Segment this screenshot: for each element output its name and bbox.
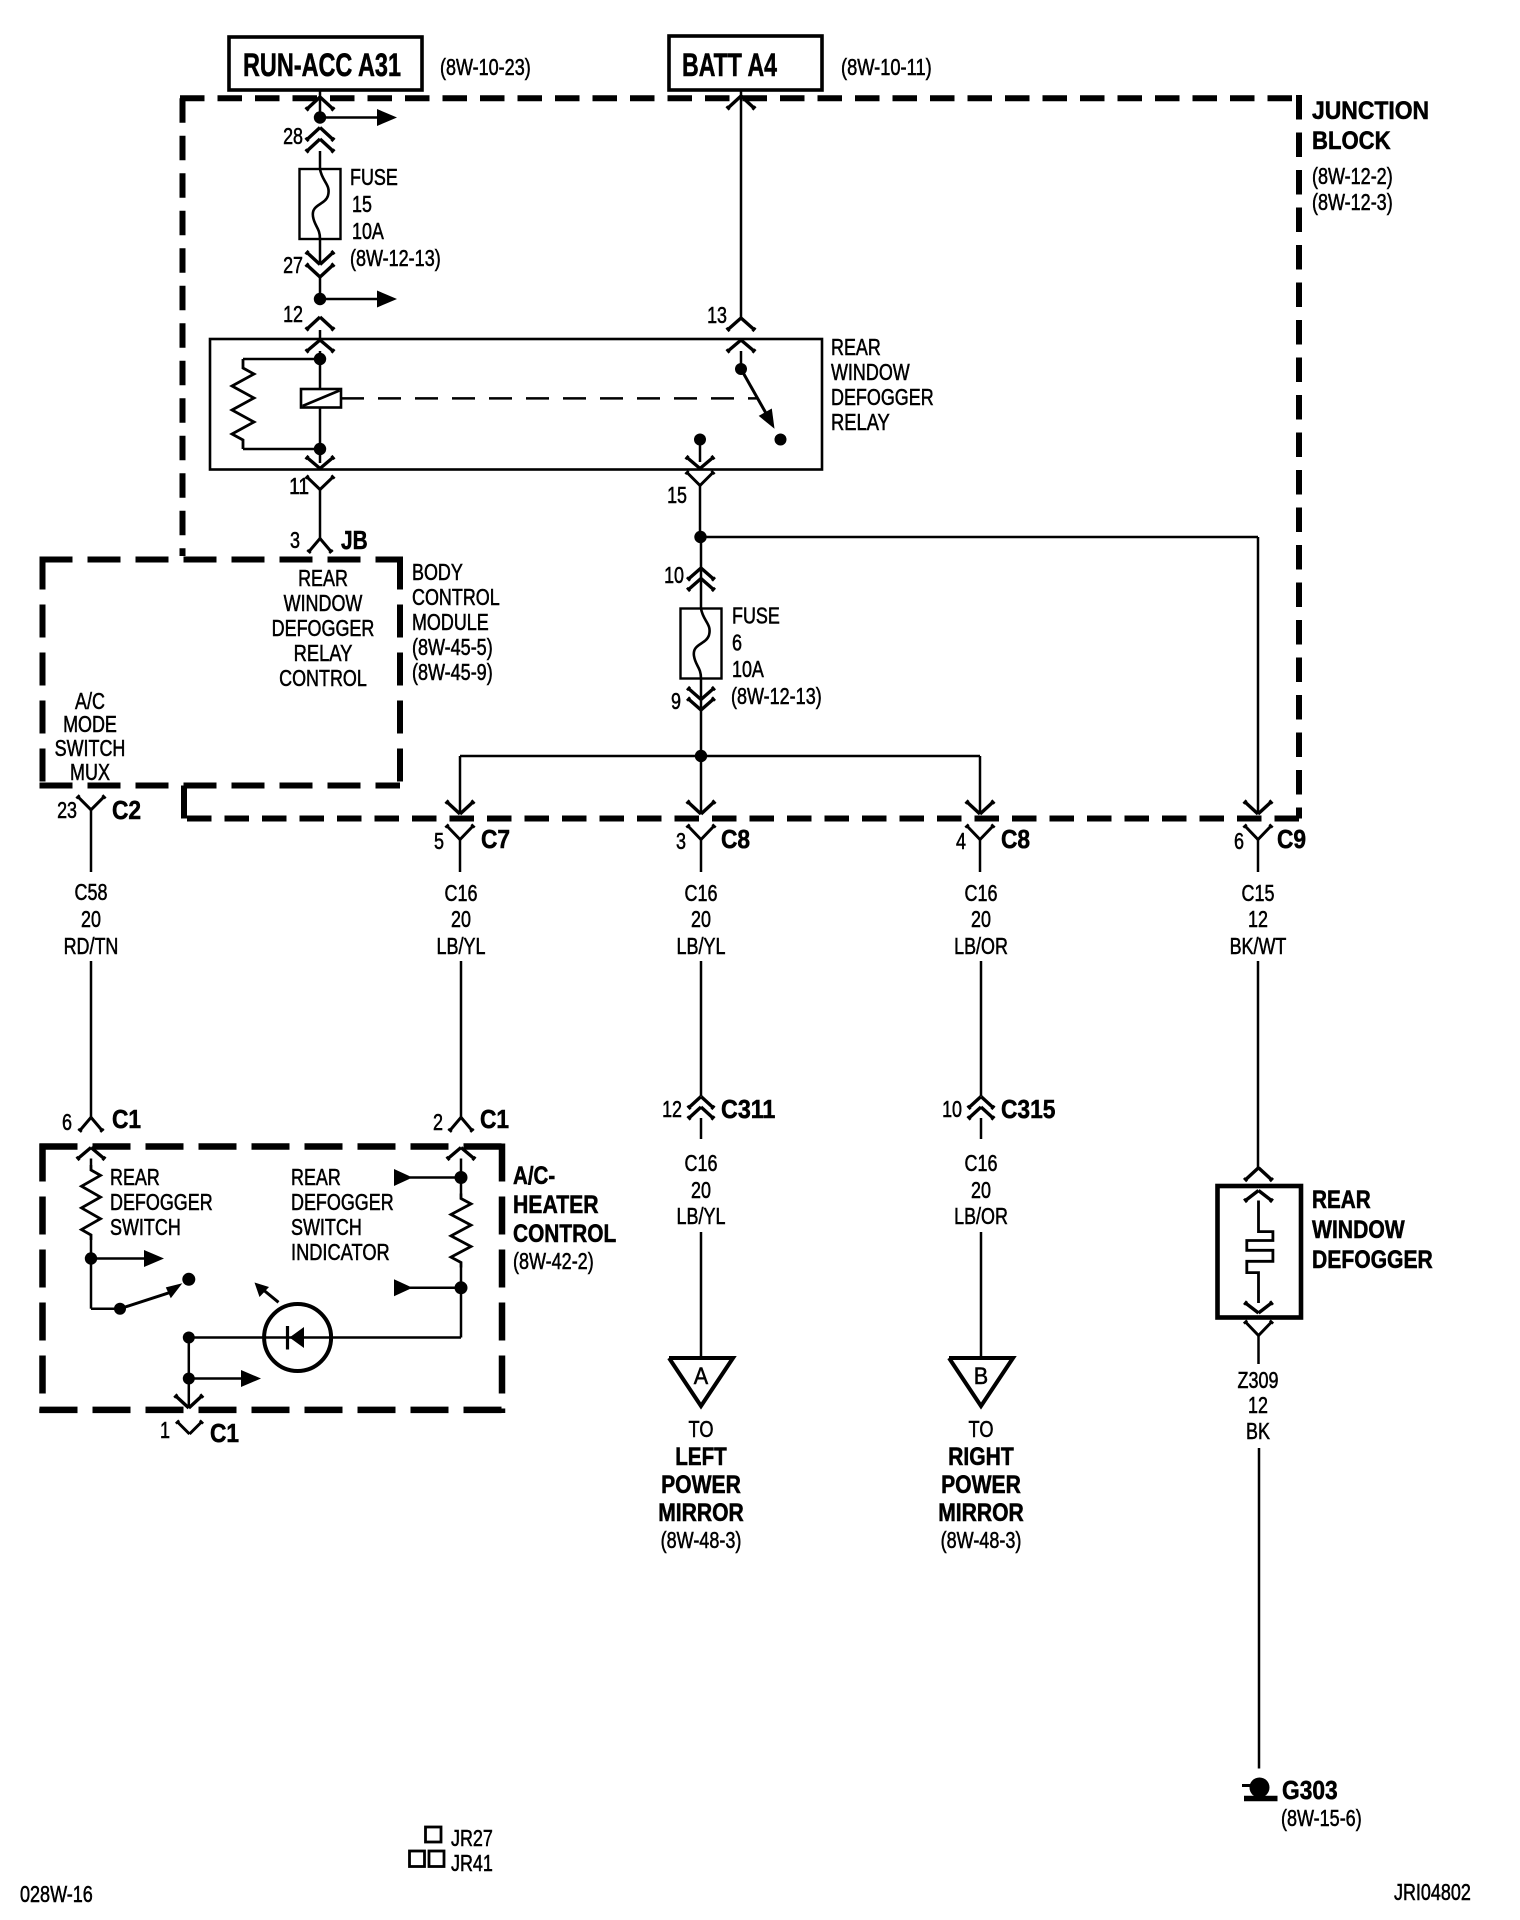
node junction dot pin 28 <box>314 111 326 123</box>
relay output chevron <box>686 456 715 469</box>
fuse 15 10A <box>300 169 341 239</box>
wire C7 drop vertical <box>459 756 462 812</box>
node pin1 junction <box>183 1373 195 1385</box>
pin label 11 <box>289 473 309 499</box>
svg-text:LB/OR: LB/OR <box>954 933 1008 959</box>
pin label 10 <box>664 562 684 588</box>
pin label 27 <box>283 252 303 278</box>
wire BATT A4 to junction block <box>740 90 743 318</box>
wire pin 15 down to junction <box>699 486 702 538</box>
wire splice to C8-4 drop <box>701 755 980 758</box>
wire label C16 20 LB/YL first <box>437 880 486 959</box>
defogger grid output chevron <box>1244 1301 1273 1313</box>
svg-text:C7: C7 <box>481 824 510 854</box>
LED emission arrow <box>255 1283 279 1303</box>
svg-text:RD/TN: RD/TN <box>64 933 119 959</box>
wire C311 to label <box>700 1118 703 1139</box>
wire relay output contact down <box>699 440 702 463</box>
connector double chevron pin 10 <box>687 568 715 591</box>
power feed box BATT A4 <box>669 36 822 90</box>
svg-text:WINDOW: WINDOW <box>284 590 363 616</box>
connector vee C1 pin 1 <box>176 1420 203 1434</box>
svg-text:9: 9 <box>671 688 681 714</box>
designator C311 <box>721 1094 775 1124</box>
svg-text:12: 12 <box>1248 906 1268 932</box>
ground G303 symbol <box>1242 1778 1278 1799</box>
wire LED junction down <box>188 1338 191 1379</box>
svg-text:LB/YL: LB/YL <box>677 1203 726 1229</box>
svg-text:RELAY: RELAY <box>831 409 890 435</box>
wire defogger to ground <box>1258 1448 1261 1769</box>
wire relay coil bottom <box>319 408 322 464</box>
connector Y C8 pin 3 <box>686 824 715 872</box>
junction block dashed border bottom <box>184 816 1299 822</box>
wire splice to C7 drop <box>460 755 701 758</box>
switch input chevron <box>77 1148 106 1161</box>
svg-text:REAR: REAR <box>298 565 348 591</box>
svg-text:(8W-12-13): (8W-12-13) <box>350 245 441 271</box>
wire pin 12 to relay <box>319 330 322 339</box>
relay coil symbol <box>301 389 341 408</box>
node LED junction <box>183 1332 195 1344</box>
svg-text:SWITCH: SWITCH <box>55 735 126 761</box>
pin label 13 <box>707 302 727 328</box>
connector Y C9 pin 6 <box>1243 824 1272 872</box>
svg-text:6: 6 <box>1234 828 1244 854</box>
svg-text:3: 3 <box>676 828 686 854</box>
svg-text:BLOCK: BLOCK <box>1312 127 1391 155</box>
svg-text:4: 4 <box>956 828 966 854</box>
arrow mux signal indicator bottom <box>394 1279 461 1296</box>
svg-text:MIRROR: MIRROR <box>938 1499 1024 1527</box>
svg-text:C8: C8 <box>721 824 750 854</box>
svg-text:LEFT: LEFT <box>675 1443 727 1471</box>
arrow chevron into C7 <box>445 800 474 814</box>
wire C8-4 drop vertical <box>979 756 982 812</box>
body control module dashed box top <box>40 557 401 563</box>
wire fuse 15 to pin 27 <box>319 239 322 264</box>
fuse 6 10A <box>681 609 722 679</box>
wire to right mirror triangle <box>980 1232 983 1358</box>
svg-text:20: 20 <box>971 906 991 932</box>
svg-text:13: 13 <box>707 302 727 328</box>
svg-text:C1: C1 <box>112 1104 141 1134</box>
svg-text:1: 1 <box>160 1417 170 1443</box>
wire indicator resistor top <box>460 1178 463 1194</box>
svg-text:27: 27 <box>283 252 303 278</box>
wire pin 27 to pin 12 <box>319 277 322 299</box>
svg-text:LB/YL: LB/YL <box>677 933 726 959</box>
pin label 3 <box>290 527 300 553</box>
designator C2 <box>112 795 141 825</box>
svg-text:C311: C311 <box>721 1094 775 1124</box>
splice symbol JR41 <box>410 1851 445 1867</box>
arrow chevron into C9 <box>1243 800 1272 814</box>
designator C8 pin4 <box>1001 824 1030 854</box>
connector chevron pin 13 <box>726 318 755 331</box>
svg-text:C1: C1 <box>480 1104 509 1134</box>
designator G303 <box>1282 1775 1338 1805</box>
wire label C16 20 LB/OR first <box>954 880 1008 959</box>
off-page connector triangle A <box>669 1358 733 1406</box>
node junction dot pin 12 <box>314 293 326 305</box>
defogger grid input chevron <box>1244 1191 1273 1203</box>
wire label C16 20 LB/YL third <box>677 1150 726 1229</box>
connector double chevron pin 27 <box>305 251 334 277</box>
designator C1 bottom <box>210 1418 239 1448</box>
wire RUN-ACC A31 to junction block <box>319 90 322 118</box>
node relay output contact <box>694 434 706 446</box>
svg-text:JRI04802: JRI04802 <box>1394 1879 1471 1905</box>
power feed box RUN-ACC A31 <box>229 37 422 90</box>
node relay common contact <box>735 363 747 375</box>
svg-text:DEFOGGER: DEFOGGER <box>110 1189 213 1215</box>
switch blade with arrow <box>120 1283 182 1309</box>
designator C1 left <box>112 1104 141 1134</box>
junction block dashed border left <box>180 98 186 556</box>
fuse 6 label <box>731 603 822 710</box>
resistor relay coil suppression <box>232 359 254 449</box>
svg-text:JB: JB <box>341 525 368 555</box>
wire C2 to C1 pin 6 <box>90 961 93 1117</box>
svg-text:23: 23 <box>57 797 77 823</box>
pin label 2 C1 <box>433 1109 443 1135</box>
svg-text:20: 20 <box>971 1177 991 1203</box>
node splice below fuse 6 <box>695 750 707 762</box>
node relay NO contact <box>775 434 787 446</box>
connector chevron defogger input <box>1244 1168 1273 1182</box>
wire to left mirror triangle <box>700 1232 703 1358</box>
svg-text:CONTROL: CONTROL <box>279 665 367 691</box>
relay control dashed line <box>341 397 757 400</box>
svg-text:JR41: JR41 <box>451 1850 493 1876</box>
reference (8W-15-6) <box>1281 1805 1362 1831</box>
pin label 10 C315 <box>942 1096 962 1122</box>
pin label 1 C1 <box>160 1417 170 1443</box>
LED diode symbol <box>288 1326 305 1350</box>
svg-text:20: 20 <box>81 906 101 932</box>
relay coil input chevron <box>306 340 335 353</box>
connector Y C8 pin 4 <box>965 824 994 872</box>
wire relay switch common <box>740 351 743 369</box>
connector Y pin 15 <box>685 471 714 486</box>
svg-text:15: 15 <box>667 482 687 508</box>
connector double chevron pin 28 <box>305 128 334 153</box>
rear window defogger relay box <box>210 339 822 470</box>
relay switch blade <box>741 369 775 429</box>
svg-text:20: 20 <box>451 906 471 932</box>
svg-text:15: 15 <box>352 191 372 217</box>
wire coil top to resistor <box>243 358 320 361</box>
svg-text:(8W-48-3): (8W-48-3) <box>661 1527 742 1553</box>
pin label 4 C8 <box>956 828 966 854</box>
drawing number JRI04802 <box>1394 1879 1471 1905</box>
wire label C15 12 BK/WT <box>1230 880 1287 959</box>
svg-text:(8W-42-2): (8W-42-2) <box>513 1248 594 1274</box>
node indicator top junction <box>455 1171 468 1184</box>
svg-text:(8W-10-23): (8W-10-23) <box>440 54 531 80</box>
connector inverted-Y JB pin 3 <box>307 539 333 553</box>
wire splice to pivot <box>91 1259 120 1309</box>
svg-text:DEFOGGER: DEFOGGER <box>831 384 934 410</box>
pin label 5 C7 <box>434 828 444 854</box>
to left power mirror label <box>658 1416 744 1553</box>
wire label C16 20 LB/OR second <box>954 1150 1008 1229</box>
label JR27 <box>451 1825 493 1851</box>
svg-text:WINDOW: WINDOW <box>831 359 910 385</box>
relay coil output chevron <box>306 456 335 469</box>
arrow branch right at pin 28 <box>320 109 397 126</box>
svg-text:C315: C315 <box>1001 1094 1055 1124</box>
AC heater control dashed box right <box>499 1144 506 1414</box>
wire C8-4 to C315 <box>980 961 983 1096</box>
designator C1 right <box>480 1104 509 1134</box>
junction block dashed border right <box>1296 95 1302 819</box>
svg-text:BK/WT: BK/WT <box>1230 933 1287 959</box>
svg-text:2: 2 <box>433 1109 443 1135</box>
wire LED left <box>189 1336 265 1339</box>
svg-text:C2: C2 <box>112 795 141 825</box>
LED wire through <box>265 1336 461 1339</box>
svg-text:SWITCH: SWITCH <box>291 1214 362 1240</box>
svg-text:LB/YL: LB/YL <box>437 933 486 959</box>
svg-text:CONTROL: CONTROL <box>513 1220 616 1248</box>
svg-text:A: A <box>694 1363 708 1390</box>
wire C7 down to C1 pin 2 <box>460 961 463 1117</box>
svg-text:10A: 10A <box>732 656 764 682</box>
svg-text:SWITCH: SWITCH <box>110 1214 181 1240</box>
pin label 6 C1 <box>62 1109 72 1135</box>
wire C9 to defogger <box>1257 961 1260 1168</box>
svg-text:MIRROR: MIRROR <box>658 1499 744 1527</box>
svg-text:FUSE: FUSE <box>732 603 780 629</box>
node switch splice <box>85 1252 97 1264</box>
svg-text:10A: 10A <box>352 218 384 244</box>
svg-text:DEFOGGER: DEFOGGER <box>291 1189 394 1215</box>
svg-text:TO: TO <box>689 1416 714 1442</box>
arrow chevron into C8 pin 4 <box>965 800 994 814</box>
svg-text:C16: C16 <box>685 880 718 906</box>
arrow mux signal switch <box>91 1250 164 1267</box>
svg-text:12: 12 <box>1248 1392 1268 1418</box>
body control module dashed box left <box>40 557 46 789</box>
LED circle <box>264 1304 331 1371</box>
wire junction to fuse 6 <box>700 537 703 609</box>
node coil top junction <box>314 353 326 365</box>
svg-text:RELAY: RELAY <box>294 640 353 666</box>
connector chevron pin 12 <box>305 317 334 331</box>
svg-text:20: 20 <box>691 1177 711 1203</box>
svg-text:G303: G303 <box>1282 1775 1338 1805</box>
pin label 9 <box>671 688 681 714</box>
svg-text:C15: C15 <box>1242 880 1275 906</box>
svg-text:RIGHT: RIGHT <box>948 1443 1014 1471</box>
AC mode switch mux label <box>55 688 126 785</box>
designator C8 pin3 <box>721 824 750 854</box>
svg-text:12: 12 <box>283 301 303 327</box>
indicator input chevron <box>447 1148 476 1161</box>
wire resistor to splice <box>90 1240 93 1259</box>
wire C8-3 to C311 <box>700 961 703 1096</box>
wire pin 28 to fuse 15 <box>319 151 322 169</box>
designator C9 <box>1277 824 1306 854</box>
svg-text:WINDOW: WINDOW <box>1312 1216 1405 1244</box>
wire resistor bottom to coil bottom <box>243 448 320 451</box>
resistor indicator <box>451 1194 471 1268</box>
arrow branch right at pin 12 <box>320 291 397 308</box>
svg-text:C16: C16 <box>965 1150 998 1176</box>
svg-text:(8W-12-13): (8W-12-13) <box>731 683 822 709</box>
svg-text:5: 5 <box>434 828 444 854</box>
svg-text:JUNCTION: JUNCTION <box>1312 97 1429 125</box>
junction block label <box>1312 97 1429 215</box>
svg-text:B: B <box>974 1363 988 1390</box>
relay label <box>831 334 934 435</box>
svg-text:DEFOGGER: DEFOGGER <box>1312 1246 1433 1274</box>
wire pin 9 to splice <box>700 710 703 756</box>
designator JB <box>341 525 368 555</box>
svg-text:(8W-12-2): (8W-12-2) <box>1312 163 1393 189</box>
svg-text:POWER: POWER <box>661 1471 741 1499</box>
svg-text:BK: BK <box>1246 1418 1270 1444</box>
splice symbol JR27 <box>426 1827 442 1842</box>
connector Y below defogger <box>1244 1320 1273 1364</box>
wire junction to C9 drop <box>701 536 1259 539</box>
svg-text:REAR: REAR <box>291 1164 341 1190</box>
svg-text:(8W-48-3): (8W-48-3) <box>941 1527 1022 1553</box>
node switch pivot <box>114 1303 126 1315</box>
AC heater control dashed box left <box>39 1144 46 1414</box>
body control module dashed box bottom <box>40 783 401 789</box>
connector Y pin 11 <box>305 475 334 538</box>
svg-text:(8W-12-3): (8W-12-3) <box>1312 189 1393 215</box>
wire pin1 down <box>188 1379 191 1407</box>
wire fuse 6 to pin 9 <box>700 679 703 711</box>
svg-text:6: 6 <box>732 630 742 656</box>
svg-text:REAR: REAR <box>831 334 881 360</box>
svg-text:28: 28 <box>283 123 303 149</box>
designator C7 <box>481 824 510 854</box>
svg-text:10: 10 <box>664 562 684 588</box>
sheet number 028W-16 <box>20 1881 93 1907</box>
svg-text:CONTROL: CONTROL <box>412 584 500 610</box>
svg-text:3: 3 <box>290 527 300 553</box>
svg-text:6: 6 <box>62 1109 72 1135</box>
svg-text:(8W-45-5): (8W-45-5) <box>412 634 493 660</box>
svg-text:C1: C1 <box>210 1418 239 1448</box>
relay switch input chevron <box>727 340 756 353</box>
connector chevron at junction block top left <box>305 97 334 111</box>
svg-text:MODE: MODE <box>63 711 117 737</box>
resistor rear defogger switch <box>82 1165 101 1240</box>
AC heater control dashed box top <box>40 1143 506 1150</box>
pin label 15 <box>667 482 687 508</box>
wire indicator down to LED <box>460 1288 463 1338</box>
arrow chevron into C1 pin 1 <box>174 1394 203 1408</box>
node switch contact <box>182 1273 195 1286</box>
svg-text:12: 12 <box>662 1096 682 1122</box>
pin label 3 C8 <box>676 828 686 854</box>
wire C9 drop vertical <box>1257 537 1260 812</box>
svg-text:LB/OR: LB/OR <box>954 1203 1008 1229</box>
svg-text:(8W-45-9): (8W-45-9) <box>412 659 493 685</box>
fuse 15 label <box>350 164 441 271</box>
defogger heater element <box>1247 1201 1273 1304</box>
wire C315 to label <box>980 1118 983 1139</box>
node junction below pin 15 <box>694 531 706 543</box>
arrow chevron into C8 pin 3 <box>686 800 715 814</box>
svg-text:POWER: POWER <box>941 1471 1021 1499</box>
wire splice down to C8 pin 3 <box>700 756 703 812</box>
connector inverted-Y C1 pin 6 <box>78 1117 104 1131</box>
svg-text:BODY: BODY <box>412 559 463 585</box>
svg-text:C16: C16 <box>685 1150 718 1176</box>
BCM relay control label <box>272 565 375 691</box>
svg-text:C58: C58 <box>75 879 108 905</box>
reference (8W-10-23) <box>440 54 531 80</box>
svg-text:Z309: Z309 <box>1238 1367 1279 1393</box>
wire label C58 20 RD/TN <box>64 879 119 959</box>
rear window defogger box <box>1218 1186 1302 1318</box>
pin label 6 C9 <box>1234 828 1244 854</box>
rear defogger switch label <box>110 1164 213 1240</box>
svg-text:20: 20 <box>691 906 711 932</box>
svg-text:RUN-ACC A31: RUN-ACC A31 <box>243 47 401 83</box>
connector double chevron C315 <box>967 1097 994 1120</box>
arrow mux signal indicator top <box>394 1169 461 1186</box>
wire resistor to junction <box>460 1268 463 1288</box>
label JR41 <box>451 1850 493 1876</box>
svg-text:C16: C16 <box>445 880 478 906</box>
svg-text:JR27: JR27 <box>451 1825 493 1851</box>
svg-text:MODULE: MODULE <box>412 609 489 635</box>
AC heater control label <box>513 1162 616 1274</box>
svg-text:BATT A4: BATT A4 <box>682 47 777 83</box>
svg-text:MUX: MUX <box>70 759 110 785</box>
connector chevron at junction block top right <box>726 96 755 110</box>
svg-text:C8: C8 <box>1001 824 1030 854</box>
svg-text:(8W-15-6): (8W-15-6) <box>1281 1805 1362 1831</box>
connector Y C2 pin 23 <box>76 795 105 872</box>
svg-text:HEATER: HEATER <box>513 1191 599 1219</box>
arrow mux signal pin1 <box>189 1370 261 1387</box>
svg-text:REAR: REAR <box>110 1164 160 1190</box>
svg-text:10: 10 <box>942 1096 962 1122</box>
body control module dashed box right <box>397 557 403 789</box>
connector double chevron pin 9 <box>687 687 715 710</box>
designator C315 <box>1001 1094 1055 1124</box>
wire relay coil top <box>319 351 322 389</box>
connector Y C7 pin 5 <box>445 824 474 872</box>
node coil bottom junction <box>314 443 326 455</box>
wire label C16 20 LB/YL second <box>677 880 726 959</box>
svg-text:DEFOGGER: DEFOGGER <box>272 615 375 641</box>
to right power mirror label <box>938 1416 1024 1553</box>
svg-text:C16: C16 <box>965 880 998 906</box>
pin label 23 <box>57 797 77 823</box>
svg-text:TO: TO <box>969 1416 994 1442</box>
pin label 12 C311 <box>662 1096 682 1122</box>
AC heater control dashed box bottom <box>40 1407 506 1414</box>
svg-text:A/C-: A/C- <box>513 1162 555 1190</box>
junction block bottom jog <box>181 786 187 819</box>
body control module label <box>412 559 500 685</box>
svg-text:FUSE: FUSE <box>350 164 398 190</box>
svg-text:C9: C9 <box>1277 824 1306 854</box>
rear window defogger label <box>1312 1186 1433 1274</box>
wire switch input <box>90 1159 93 1166</box>
node indicator bottom junction <box>455 1281 468 1294</box>
